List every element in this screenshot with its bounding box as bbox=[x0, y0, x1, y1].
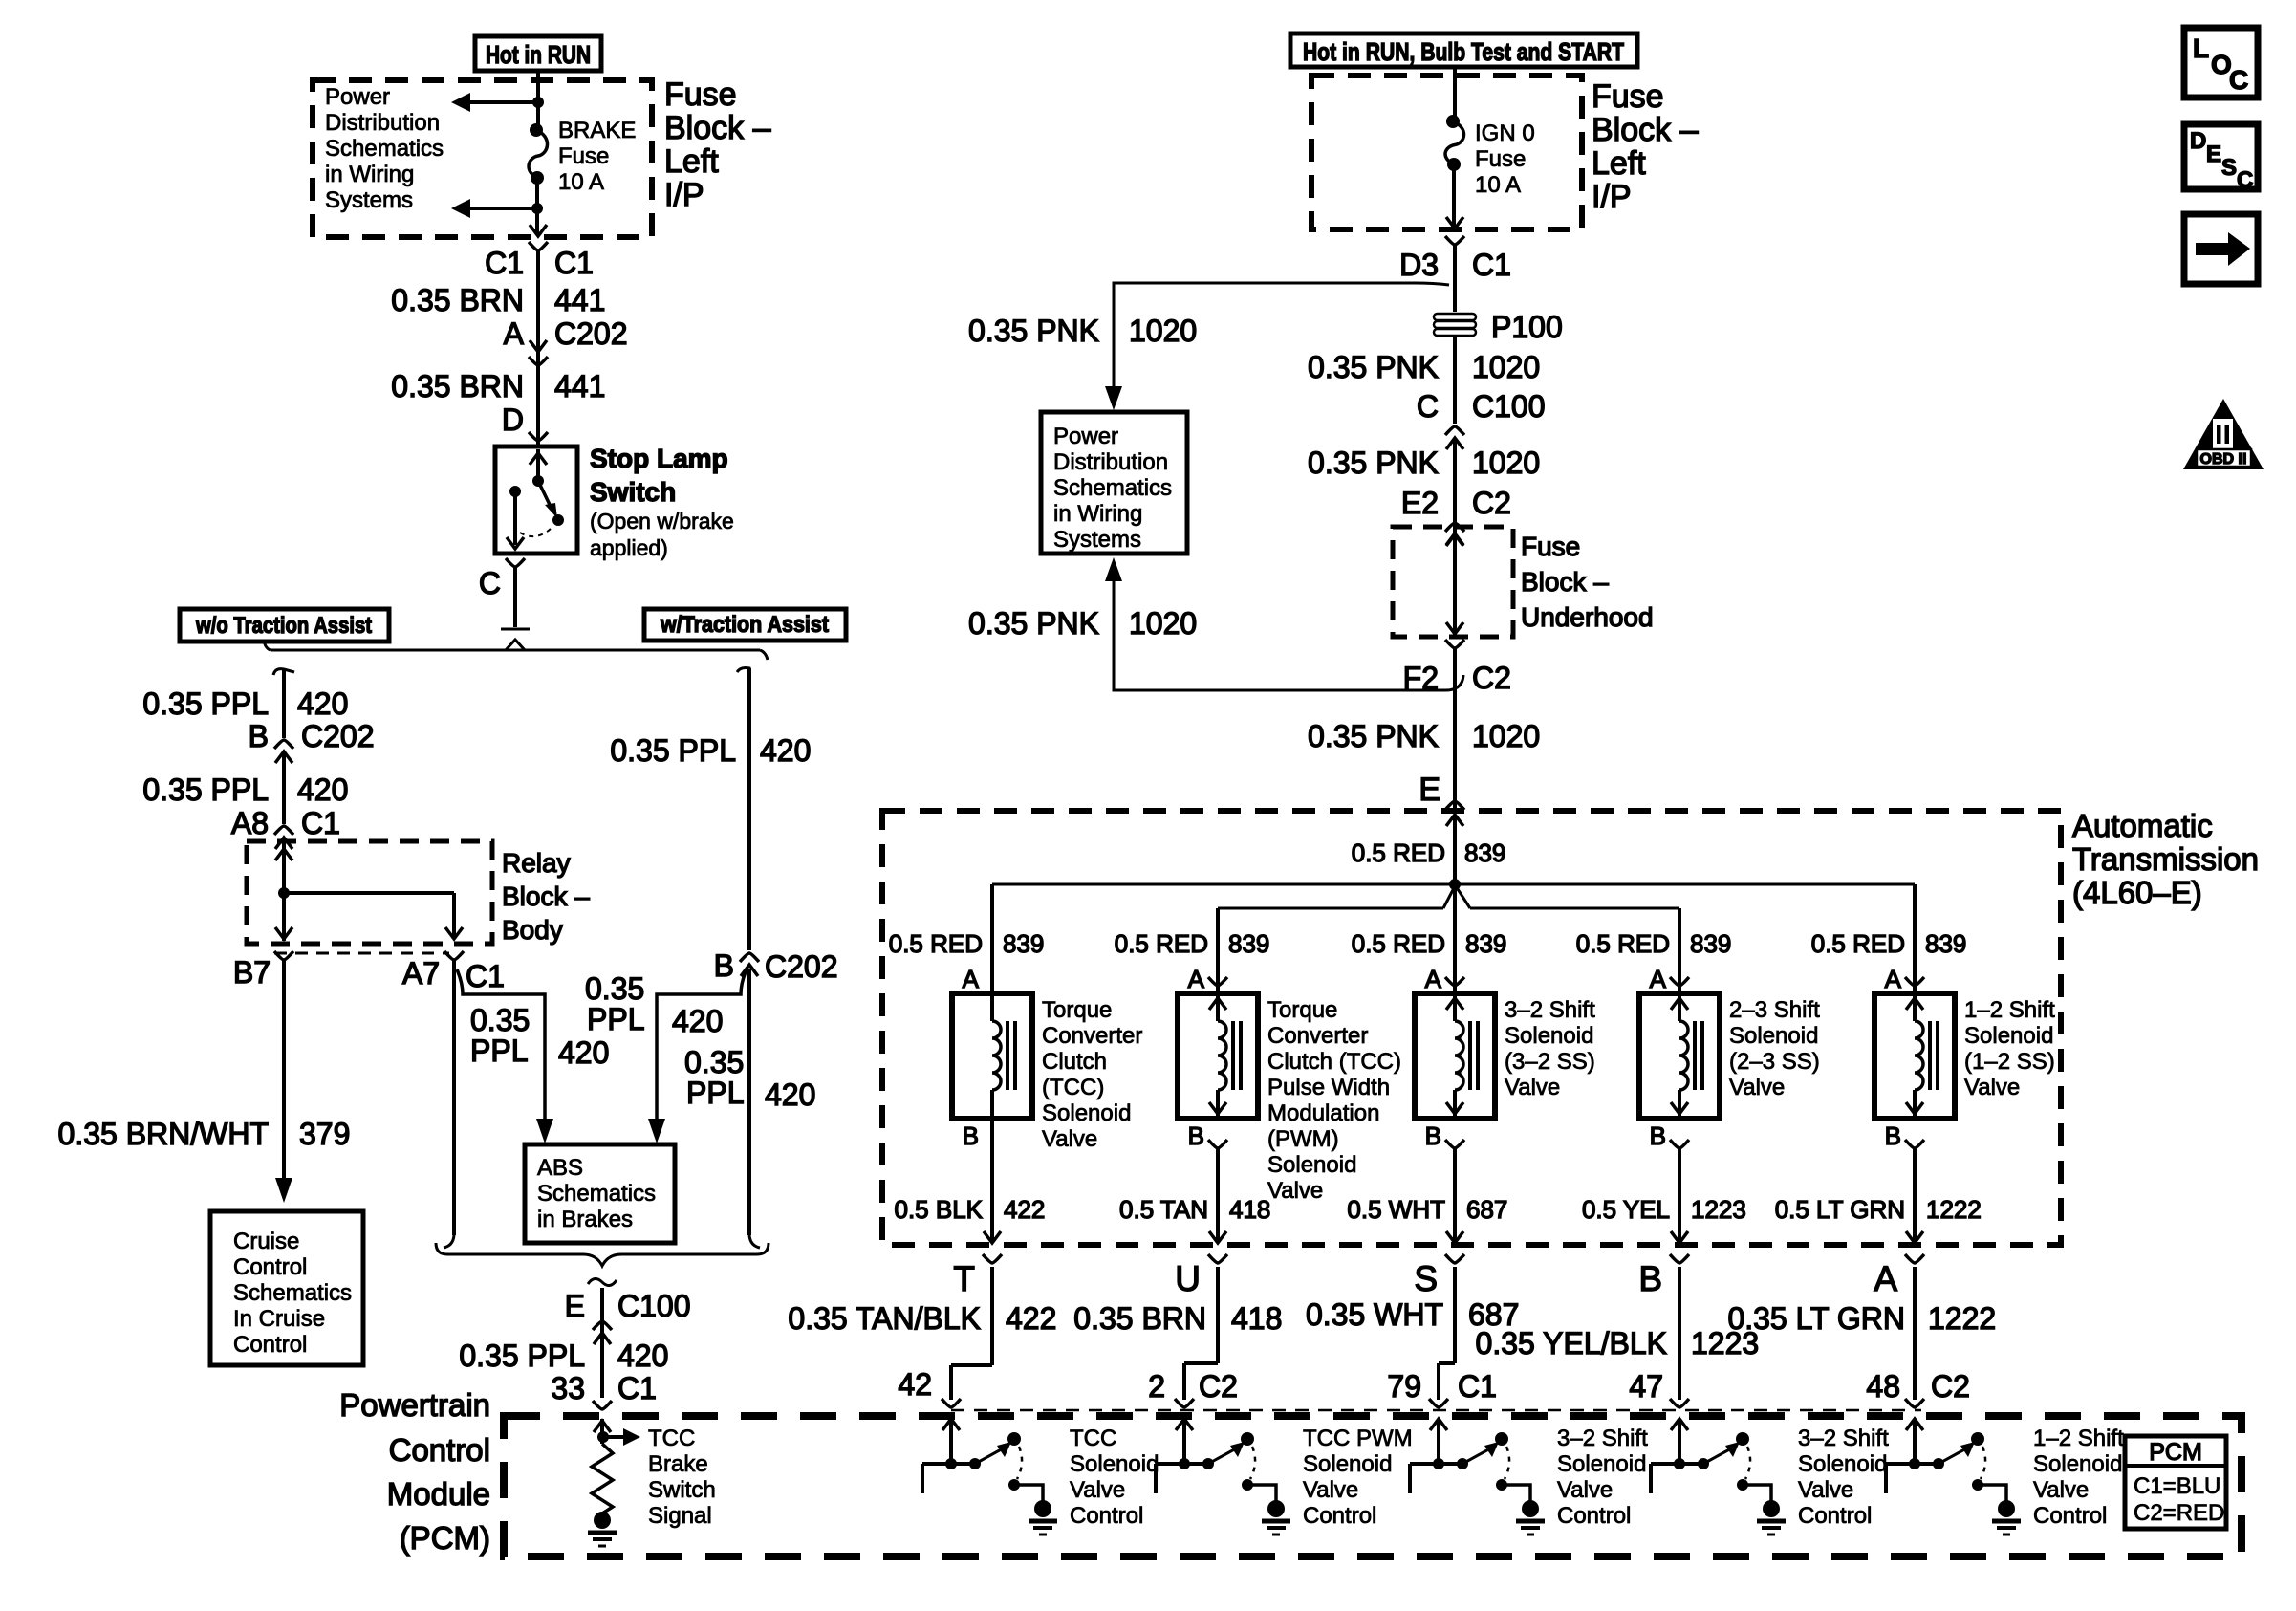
labels 0.35 PNK | 1020 (branch 2) bbox=[968, 606, 1197, 641]
icon DESC box bbox=[2184, 124, 2258, 193]
relay block connector dashed line bbox=[274, 952, 449, 955]
connector C100 up (right trunk) bbox=[1445, 426, 1464, 527]
svg-text:Solenoid: Solenoid bbox=[1303, 1451, 1392, 1477]
svg-text:in Wiring: in Wiring bbox=[1053, 501, 1142, 527]
header box "Hot in RUN, Bulb Test and START" bbox=[1290, 33, 1637, 67]
svg-text:A: A bbox=[1425, 965, 1442, 993]
fuse IGN 0 Fuse 10 A bbox=[1445, 115, 1463, 171]
svg-text:33: 33 bbox=[551, 1371, 585, 1405]
label BRAKE Fuse 10 A bbox=[558, 118, 636, 195]
svg-text:0.35 PNK: 0.35 PNK bbox=[968, 606, 1099, 641]
svg-text:Control: Control bbox=[1070, 1503, 1143, 1529]
svg-text:0.35 PPL: 0.35 PPL bbox=[142, 686, 269, 721]
wire branch 5 down bbox=[1906, 1148, 1923, 1243]
svg-text:1020: 1020 bbox=[1472, 719, 1540, 753]
switch 3-2 Shift Solenoid Valve Control inside PCM bbox=[1410, 1419, 1545, 1535]
svg-text:Schematics: Schematics bbox=[1053, 475, 1172, 501]
PCM legend box bbox=[2125, 1436, 2226, 1529]
connector U bbox=[1175, 1254, 1227, 1298]
svg-text:48: 48 bbox=[1866, 1369, 1900, 1404]
svg-text:C2: C2 bbox=[1199, 1369, 1238, 1404]
svg-text:0.5 RED: 0.5 RED bbox=[1352, 929, 1445, 958]
svg-text:IGN 0: IGN 0 bbox=[1475, 120, 1535, 146]
svg-text:PPL: PPL bbox=[470, 1034, 528, 1068]
svg-text:Fuse: Fuse bbox=[1592, 78, 1664, 115]
svg-text:839: 839 bbox=[1228, 929, 1269, 958]
connector 33 cup bbox=[593, 1401, 612, 1409]
svg-text:w/o Traction Assist: w/o Traction Assist bbox=[195, 613, 372, 639]
svg-text:42: 42 bbox=[898, 1367, 932, 1402]
svg-text:0.35 BRN: 0.35 BRN bbox=[391, 369, 524, 403]
svg-text:420: 420 bbox=[558, 1035, 609, 1070]
label 3-2 Shift Solenoid Valve Control bbox=[1557, 1426, 1648, 1529]
header box "w/o Traction Assist" bbox=[180, 609, 389, 642]
wire U jog to pin 2 bbox=[1184, 1267, 1218, 1400]
svg-text:0.35 BRN/WHT: 0.35 BRN/WHT bbox=[58, 1117, 269, 1151]
svg-text:Solenoid: Solenoid bbox=[1964, 1023, 2053, 1049]
svg-text:Left: Left bbox=[1592, 145, 1646, 182]
svg-text:B: B bbox=[1650, 1121, 1666, 1150]
svg-text:(TCC): (TCC) bbox=[1042, 1075, 1104, 1100]
fuse BRAKE Fuse 10 A bbox=[529, 123, 547, 185]
svg-text:420: 420 bbox=[765, 1078, 815, 1112]
svg-text:0.5 RED: 0.5 RED bbox=[1811, 929, 1905, 958]
ABS schematics in brakes box bbox=[525, 1144, 675, 1243]
branch wire up into power distribution box bottom bbox=[1105, 557, 1463, 690]
svg-text:Fuse: Fuse bbox=[664, 76, 737, 113]
svg-text:C: C bbox=[2237, 167, 2253, 193]
svg-text:687: 687 bbox=[1466, 1195, 1507, 1224]
svg-text:0.5 WHT: 0.5 WHT bbox=[1347, 1195, 1445, 1224]
svg-text:Fuse: Fuse bbox=[1521, 532, 1580, 561]
switch 1-2 Shift Solenoid Valve Control inside PCM bbox=[1886, 1419, 2021, 1535]
svg-text:Control: Control bbox=[1303, 1503, 1376, 1529]
wire A down to pin 48 bbox=[1913, 1267, 1917, 1400]
wire branch 4 down bbox=[1671, 1148, 1688, 1243]
svg-text:C100: C100 bbox=[1472, 389, 1546, 424]
power distribution schematics box (right) bbox=[1041, 412, 1187, 554]
labels 0.5 YEL | 1223 bbox=[1582, 1195, 1746, 1224]
svg-text:TCC PWM: TCC PWM bbox=[1303, 1426, 1413, 1451]
wire bbox=[536, 102, 540, 130]
svg-text:C2=RED: C2=RED bbox=[2134, 1500, 2224, 1526]
header box "w/Traction Assist" bbox=[644, 609, 846, 641]
header box "Hot in RUN" bbox=[475, 36, 601, 71]
svg-text:Fuse: Fuse bbox=[558, 143, 609, 169]
wire branch 2 down bbox=[1209, 1148, 1226, 1243]
connector B7 bbox=[233, 951, 293, 990]
svg-text:applied): applied) bbox=[590, 535, 668, 560]
svg-text:2: 2 bbox=[1148, 1369, 1165, 1404]
wire T jog to pin 42 bbox=[951, 1267, 992, 1400]
wire below P100 bbox=[1453, 336, 1457, 424]
svg-text:Brake: Brake bbox=[648, 1451, 708, 1477]
svg-text:A: A bbox=[1885, 965, 1902, 993]
ground of TCC PWM Solenoid Valve Control bbox=[1262, 1500, 1290, 1535]
svg-text:839: 839 bbox=[1003, 929, 1044, 958]
svg-text:PCM: PCM bbox=[2149, 1439, 2202, 1466]
connector cup A branch 2 bbox=[1208, 977, 1227, 986]
label 3–2 Shift Solenoid (3–2 SS) Valve bbox=[1505, 997, 1595, 1100]
svg-text:B: B bbox=[1638, 1259, 1662, 1298]
labels E2 | C2 bbox=[1401, 486, 1511, 520]
svg-text:w/Traction Assist: w/Traction Assist bbox=[660, 612, 829, 638]
svg-text:Control: Control bbox=[2033, 1503, 2107, 1529]
svg-text:S: S bbox=[1414, 1259, 1438, 1298]
connector C100 up bbox=[593, 1321, 612, 1344]
grommet P100 bbox=[1434, 310, 1563, 344]
labels 0.35 PPL | 420 bbox=[610, 733, 811, 768]
stop lamp switch internals bbox=[507, 449, 564, 549]
labels 0.35 BRN/WHT | 379 bbox=[58, 1117, 351, 1151]
svg-text:C2: C2 bbox=[1931, 1369, 1970, 1404]
wire jog to ABS (right) bbox=[648, 969, 747, 1143]
label Fuse Block - Left I/P (right) bbox=[1592, 78, 1699, 215]
svg-text:420: 420 bbox=[297, 686, 348, 721]
wire B7 down to cruise control bbox=[275, 960, 292, 1203]
svg-text:I/P: I/P bbox=[664, 177, 704, 213]
ground (TCC brake) bbox=[588, 1512, 617, 1546]
wire S jog to pin 79 bbox=[1439, 1267, 1455, 1400]
svg-text:E: E bbox=[1419, 772, 1440, 808]
connector cup A branch 3 bbox=[1445, 977, 1464, 986]
svg-text:Signal: Signal bbox=[648, 1503, 712, 1529]
icon OBD II triangle bbox=[2183, 399, 2264, 469]
wire exiting right fuse block bbox=[1445, 164, 1464, 312]
svg-text:E: E bbox=[565, 1289, 585, 1323]
wire exiting fuse block with connector bbox=[529, 208, 548, 446]
icon arrow box bbox=[2184, 214, 2258, 284]
labels 0.5 RED | 839 (branch 5) bbox=[1811, 929, 1967, 958]
svg-text:C202: C202 bbox=[765, 949, 838, 984]
svg-text:(PWM): (PWM) bbox=[1267, 1126, 1339, 1152]
svg-text:1020: 1020 bbox=[1129, 314, 1197, 348]
labels C | C100 bbox=[1417, 389, 1546, 424]
svg-text:L: L bbox=[2193, 33, 2209, 63]
svg-text:Underhood: Underhood bbox=[1521, 602, 1654, 632]
svg-text:0.35 TAN/BLK: 0.35 TAN/BLK bbox=[788, 1301, 981, 1336]
ground of 1-2 Shift Solenoid Valve Control bbox=[1992, 1500, 2021, 1535]
svg-text:420: 420 bbox=[297, 773, 348, 807]
svg-text:C1: C1 bbox=[617, 1371, 657, 1405]
label 1-2 Shift Solenoid Valve Control bbox=[2033, 1426, 2124, 1529]
svg-text:Valve: Valve bbox=[1267, 1178, 1323, 1204]
svg-text:10 A: 10 A bbox=[1475, 172, 1521, 198]
svg-text:C1: C1 bbox=[1472, 248, 1511, 282]
svg-text:839: 839 bbox=[1465, 929, 1506, 958]
svg-text:0.35: 0.35 bbox=[470, 1003, 530, 1037]
labels 0.5 LT GRN | 1222 bbox=[1775, 1195, 1982, 1224]
svg-text:ABS: ABS bbox=[537, 1155, 583, 1181]
svg-text:1222: 1222 bbox=[1928, 1301, 1996, 1336]
svg-text:0.5 RED: 0.5 RED bbox=[889, 929, 983, 958]
svg-text:(PCM): (PCM) bbox=[400, 1520, 490, 1556]
svg-text:BRAKE: BRAKE bbox=[558, 118, 636, 143]
label Automatic Transmission (4L60-E) bbox=[2072, 808, 2259, 910]
wire A7 down bbox=[444, 960, 454, 1248]
svg-text:Systems: Systems bbox=[1053, 527, 1141, 553]
svg-text:Valve: Valve bbox=[1505, 1075, 1560, 1100]
text Power Distribution Schematics in Wiring Systems bbox=[325, 84, 444, 213]
text Power Distribution Schematics in Wiring Systems (right box) bbox=[1053, 424, 1172, 553]
wire from Hot in RUN into fuse block bbox=[536, 71, 540, 102]
ground of TCC Solenoid Valve Control bbox=[1029, 1500, 1057, 1535]
svg-text:C202: C202 bbox=[554, 316, 628, 351]
svg-text:Clutch (TCC): Clutch (TCC) bbox=[1267, 1049, 1401, 1075]
svg-text:Schematics: Schematics bbox=[233, 1280, 352, 1306]
svg-text:0.35: 0.35 bbox=[585, 971, 644, 1006]
svg-text:C202: C202 bbox=[301, 719, 375, 753]
svg-text:420: 420 bbox=[760, 733, 811, 768]
labels 0.35 PNK | 1020 (branch) bbox=[968, 314, 1197, 348]
label 1–2 Shift Solenoid (1–2 SS) Valve bbox=[1964, 997, 2055, 1100]
svg-text:Control: Control bbox=[1798, 1503, 1872, 1529]
fuse block underhood dashed box bbox=[1393, 527, 1513, 637]
svg-text:Block –: Block – bbox=[664, 110, 771, 146]
svg-text:Cruise: Cruise bbox=[233, 1229, 299, 1254]
svg-text:0.35: 0.35 bbox=[684, 1045, 744, 1079]
label Fuse Block - Left I/P (left) bbox=[664, 76, 771, 213]
svg-text:Control: Control bbox=[1557, 1503, 1631, 1529]
svg-text:(4L60–E): (4L60–E) bbox=[2072, 875, 2202, 910]
svg-text:Block –: Block – bbox=[1592, 112, 1699, 148]
TCC brake switch signal branch bbox=[594, 1419, 640, 1446]
switch TCC Solenoid Valve Control inside PCM bbox=[922, 1419, 1057, 1535]
svg-text:Solenoid: Solenoid bbox=[1070, 1451, 1159, 1477]
branch verticals bbox=[992, 884, 1915, 993]
svg-text:In Cruise: In Cruise bbox=[233, 1306, 325, 1332]
labels A | C202 connector bbox=[504, 316, 628, 351]
svg-text:0.5 BLK: 0.5 BLK bbox=[894, 1195, 983, 1224]
svg-text:47: 47 bbox=[1629, 1369, 1663, 1404]
svg-text:0.35 LT GRN: 0.35 LT GRN bbox=[1727, 1301, 1905, 1336]
labels 0.35 PPL | 420 (right of ABS) bbox=[684, 1045, 815, 1112]
connector cup B branch 2 bbox=[1208, 1140, 1227, 1148]
labels 0.35 PNK | 1020 bbox=[1308, 446, 1540, 480]
connector cup above stop lamp switch bbox=[529, 432, 548, 441]
labels B | C202 bbox=[249, 719, 375, 753]
svg-text:C1: C1 bbox=[301, 806, 340, 840]
text ABS Schematics in Brakes bbox=[537, 1155, 656, 1232]
wire B down to pin 47 bbox=[1678, 1267, 1681, 1400]
svg-text:B: B bbox=[1425, 1121, 1441, 1150]
svg-text:A8: A8 bbox=[231, 806, 269, 840]
svg-text:Block –: Block – bbox=[502, 882, 590, 911]
svg-text:Solenoid: Solenoid bbox=[1042, 1100, 1131, 1126]
svg-text:1–2 Shift: 1–2 Shift bbox=[2033, 1426, 2124, 1451]
svg-text:3–2 Shift: 3–2 Shift bbox=[1505, 997, 1595, 1023]
svg-text:(Open w/brake: (Open w/brake bbox=[590, 509, 734, 533]
svg-text:Schematics: Schematics bbox=[537, 1181, 656, 1207]
labels 0.5 BLK | 422 bbox=[894, 1195, 1045, 1224]
label 2–3 Shift Solenoid (2–3 SS) Valve bbox=[1729, 997, 1820, 1100]
svg-text:Fuse: Fuse bbox=[1475, 146, 1526, 172]
svg-text:I/P: I/P bbox=[1592, 179, 1632, 215]
svg-text:Solenoid: Solenoid bbox=[1798, 1451, 1887, 1477]
trunk wire down to transmission bbox=[1453, 648, 1457, 811]
connector B | C202 up bbox=[714, 948, 838, 984]
svg-text:Control: Control bbox=[233, 1254, 307, 1280]
stop lamp switch box bbox=[495, 446, 577, 554]
PCM connector cups bbox=[942, 1399, 1924, 1407]
gather brace to C100 bbox=[436, 1243, 769, 1266]
svg-text:C: C bbox=[2229, 65, 2248, 95]
label Powertrain Control Module (PCM) bbox=[339, 1387, 490, 1556]
svg-text:TCC: TCC bbox=[648, 1426, 695, 1451]
svg-text:C2: C2 bbox=[1472, 486, 1511, 520]
svg-text:A: A bbox=[963, 965, 980, 993]
svg-text:P100: P100 bbox=[1491, 310, 1563, 344]
labels E | C100 bbox=[565, 1289, 691, 1323]
svg-text:0.5 TAN: 0.5 TAN bbox=[1119, 1195, 1208, 1224]
svg-text:Valve: Valve bbox=[1964, 1075, 2020, 1100]
1-2 shift solenoid valve bbox=[1874, 993, 1955, 1119]
labels 0.5 RED | 839 (top) bbox=[1352, 838, 1506, 867]
powertrain control module dashed box bbox=[504, 1416, 2242, 1557]
svg-text:Solenoid: Solenoid bbox=[2033, 1451, 2122, 1477]
svg-text:2–3 Shift: 2–3 Shift bbox=[1729, 997, 1820, 1023]
svg-text:U: U bbox=[1175, 1259, 1201, 1298]
svg-text:0.35 PNK: 0.35 PNK bbox=[1308, 719, 1439, 753]
label Stop Lamp Switch bbox=[590, 444, 734, 560]
option split line bbox=[264, 640, 768, 660]
connector cup B branch 3 bbox=[1445, 1140, 1464, 1148]
labels 0.5 WHT | 687 bbox=[1347, 1195, 1507, 1224]
svg-text:0.35 WHT: 0.35 WHT bbox=[1306, 1297, 1443, 1332]
bus wire 1 bbox=[992, 883, 1915, 886]
svg-text:C: C bbox=[479, 566, 501, 600]
svg-text:379: 379 bbox=[299, 1117, 350, 1151]
wire w/o traction branch top hook bbox=[273, 669, 294, 738]
svg-text:1020: 1020 bbox=[1472, 446, 1540, 480]
svg-text:in Wiring: in Wiring bbox=[325, 162, 414, 187]
svg-text:1223: 1223 bbox=[1691, 1195, 1746, 1224]
label TCC Brake Switch Signal bbox=[648, 1426, 716, 1529]
svg-text:D3: D3 bbox=[1399, 248, 1439, 282]
svg-text:(3–2 SS): (3–2 SS) bbox=[1505, 1049, 1595, 1075]
2-3 shift solenoid valve bbox=[1639, 993, 1720, 1119]
svg-text:T: T bbox=[953, 1259, 975, 1298]
svg-text:Control: Control bbox=[233, 1332, 307, 1358]
labels 0.35 LT GRN | 1222 bbox=[1727, 1301, 1996, 1336]
svg-text:1020: 1020 bbox=[1472, 350, 1540, 384]
labels A8 | C1 bbox=[231, 806, 340, 840]
wire w/traction branch top hook bbox=[737, 668, 749, 951]
connector A bbox=[1874, 1254, 1924, 1298]
svg-text:418: 418 bbox=[1231, 1301, 1282, 1336]
svg-text:D: D bbox=[2190, 128, 2206, 154]
svg-text:Body: Body bbox=[502, 915, 563, 945]
svg-text:839: 839 bbox=[1925, 929, 1966, 958]
svg-text:Automatic: Automatic bbox=[2072, 808, 2213, 843]
svg-text:E2: E2 bbox=[1401, 486, 1439, 520]
svg-text:Solenoid: Solenoid bbox=[1267, 1152, 1356, 1178]
labels 0.35 BRN | 441 bbox=[391, 283, 605, 317]
TCC PWM solenoid valve bbox=[1178, 993, 1258, 1119]
svg-text:Powertrain: Powertrain bbox=[339, 1387, 490, 1423]
svg-text:Solenoid: Solenoid bbox=[1729, 1023, 1818, 1049]
connector T bbox=[953, 1254, 1002, 1298]
svg-text:Schematics: Schematics bbox=[325, 136, 444, 162]
tilde connector E bbox=[588, 1278, 617, 1398]
svg-text:Distribution: Distribution bbox=[325, 110, 440, 136]
svg-text:(2–3 SS): (2–3 SS) bbox=[1729, 1049, 1820, 1075]
svg-text:839: 839 bbox=[1464, 838, 1505, 867]
svg-text:0.35 PPL: 0.35 PPL bbox=[142, 773, 269, 807]
svg-text:C100: C100 bbox=[617, 1289, 691, 1323]
wire through underhood box bbox=[1446, 527, 1463, 637]
svg-text:Control: Control bbox=[389, 1432, 490, 1468]
svg-text:Stop Lamp: Stop Lamp bbox=[590, 444, 728, 473]
connector C1 up (cup + arrow) bbox=[274, 826, 293, 849]
labels 0.35 PNK | 1020 bbox=[1308, 719, 1540, 753]
labels 0.5 TAN | 418 bbox=[1119, 1195, 1270, 1224]
labels 0.5 RED | 839 (branch 2) bbox=[1115, 929, 1270, 958]
svg-text:Torque: Torque bbox=[1042, 997, 1112, 1023]
svg-text:S: S bbox=[2221, 155, 2237, 181]
labels 0.35 PPL | 420 bbox=[459, 1339, 668, 1373]
svg-text:E: E bbox=[2206, 142, 2221, 167]
labels 0.5 RED | 839 (branch 3) bbox=[1352, 929, 1507, 958]
svg-text:C1: C1 bbox=[466, 959, 505, 993]
labels 0.35 PPL 420 (jog1) bbox=[470, 1003, 609, 1070]
svg-text:Switch: Switch bbox=[648, 1477, 716, 1503]
svg-text:3–2 Shift: 3–2 Shift bbox=[1798, 1426, 1889, 1451]
label IGN 0 Fuse 10 A bbox=[1475, 120, 1535, 198]
wire w/traction down bbox=[749, 969, 760, 1248]
labels 0.5 RED | 839 (branch 4) bbox=[1576, 929, 1732, 958]
label TCC PWM Solenoid Valve Control bbox=[1303, 1426, 1413, 1529]
label Relay Block - Body bbox=[502, 848, 590, 945]
svg-text:Hot in RUN, Bulb Test and STAR: Hot in RUN, Bulb Test and START bbox=[1303, 37, 1624, 66]
svg-text:420: 420 bbox=[617, 1339, 668, 1373]
svg-text:C1: C1 bbox=[554, 246, 594, 280]
labels 0.35 YEL/BLK | 1223 bbox=[1476, 1326, 1760, 1361]
svg-text:A: A bbox=[504, 316, 525, 351]
svg-text:Distribution: Distribution bbox=[1053, 449, 1168, 475]
svg-text:0.35 PNK: 0.35 PNK bbox=[1308, 446, 1439, 480]
svg-text:1020: 1020 bbox=[1129, 606, 1197, 641]
svg-text:C1: C1 bbox=[1458, 1369, 1497, 1404]
connector cup B branch 5 bbox=[1905, 1140, 1924, 1148]
resistor (TCC brake switch signal) bbox=[592, 1444, 613, 1513]
label Torque Converter Clutch (TCC) Pulse Width Modulation (PWM) Solenoid Valve bbox=[1267, 997, 1401, 1204]
svg-text:0.5 LT GRN: 0.5 LT GRN bbox=[1775, 1195, 1905, 1224]
junction node dot bbox=[1449, 879, 1461, 890]
svg-text:0.5 RED: 0.5 RED bbox=[1115, 929, 1208, 958]
connector A7 | C1 bbox=[402, 951, 505, 993]
svg-text:10 A: 10 A bbox=[558, 169, 604, 195]
ground of 3-2 Shift Solenoid Valve Control bbox=[1516, 1500, 1545, 1535]
svg-text:TCC: TCC bbox=[1070, 1426, 1116, 1451]
cruise control schematics box bbox=[210, 1211, 363, 1365]
labels 0.35 PPL 420 (jog2) bbox=[585, 971, 723, 1038]
svg-text:Clutch: Clutch bbox=[1042, 1049, 1107, 1075]
svg-text:839: 839 bbox=[1690, 929, 1731, 958]
svg-text:420: 420 bbox=[672, 1004, 723, 1038]
labels 33 | C1 bbox=[551, 1371, 657, 1405]
svg-text:Valve: Valve bbox=[1070, 1477, 1125, 1503]
svg-text:(1–2 SS): (1–2 SS) bbox=[1964, 1049, 2055, 1075]
svg-text:in Brakes: in Brakes bbox=[537, 1207, 633, 1232]
node: junction dot with left arrow (top) bbox=[451, 93, 544, 112]
svg-text:B: B bbox=[714, 948, 734, 983]
svg-text:441: 441 bbox=[554, 369, 605, 403]
svg-text:B7: B7 bbox=[233, 955, 271, 990]
connector S bbox=[1414, 1254, 1464, 1298]
automatic transmission dashed box bbox=[882, 811, 2061, 1245]
svg-text:0.35 BRN: 0.35 BRN bbox=[1073, 1301, 1206, 1336]
